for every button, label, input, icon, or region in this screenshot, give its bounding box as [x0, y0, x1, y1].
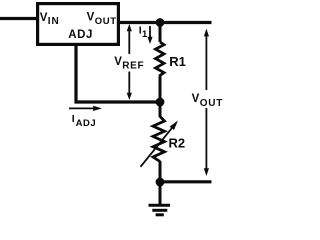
wire R2 bottom lead — [159, 161, 162, 182]
svg-text:V: V — [192, 93, 200, 105]
svg-text:ADJ: ADJ — [68, 29, 93, 41]
wire VOUT rail — [119, 21, 212, 24]
resistor R1 — [156, 42, 165, 78]
wire R2 top lead — [159, 102, 162, 117]
pot wiper arrow R2 — [141, 121, 179, 167]
ground — [149, 182, 171, 215]
wire bottom rail — [160, 180, 212, 183]
measurement arrow VREF — [127, 24, 132, 100]
wire ADJ pin down and right — [76, 44, 158, 102]
svg-text:V: V — [87, 11, 95, 23]
svg-text:I: I — [72, 113, 75, 125]
current arrow IADJ — [69, 106, 102, 111]
node A junction dot — [156, 18, 165, 27]
wire R1 top lead — [159, 23, 162, 43]
svg-text:ADJ: ADJ — [76, 118, 97, 129]
svg-text:R1: R1 — [169, 54, 186, 69]
wire R1 bottom lead — [159, 77, 162, 102]
regulator U1 — [38, 4, 119, 45]
node C junction dot — [156, 178, 165, 187]
svg-text:1: 1 — [142, 29, 148, 40]
resistor R2 potentiometer — [153, 117, 165, 162]
measurement arrow VOUT — [204, 29, 209, 176]
node B junction dot — [156, 98, 165, 107]
svg-text:R2: R2 — [169, 136, 186, 151]
svg-text:V: V — [40, 12, 48, 24]
svg-text:IN: IN — [48, 16, 60, 27]
svg-text:OUT: OUT — [200, 98, 223, 109]
svg-text:V: V — [114, 56, 122, 68]
current arrow I1 — [147, 26, 152, 44]
svg-text:REF: REF — [122, 60, 144, 71]
svg-text:OUT: OUT — [95, 16, 117, 27]
wire input to VIN — [0, 17, 37, 20]
